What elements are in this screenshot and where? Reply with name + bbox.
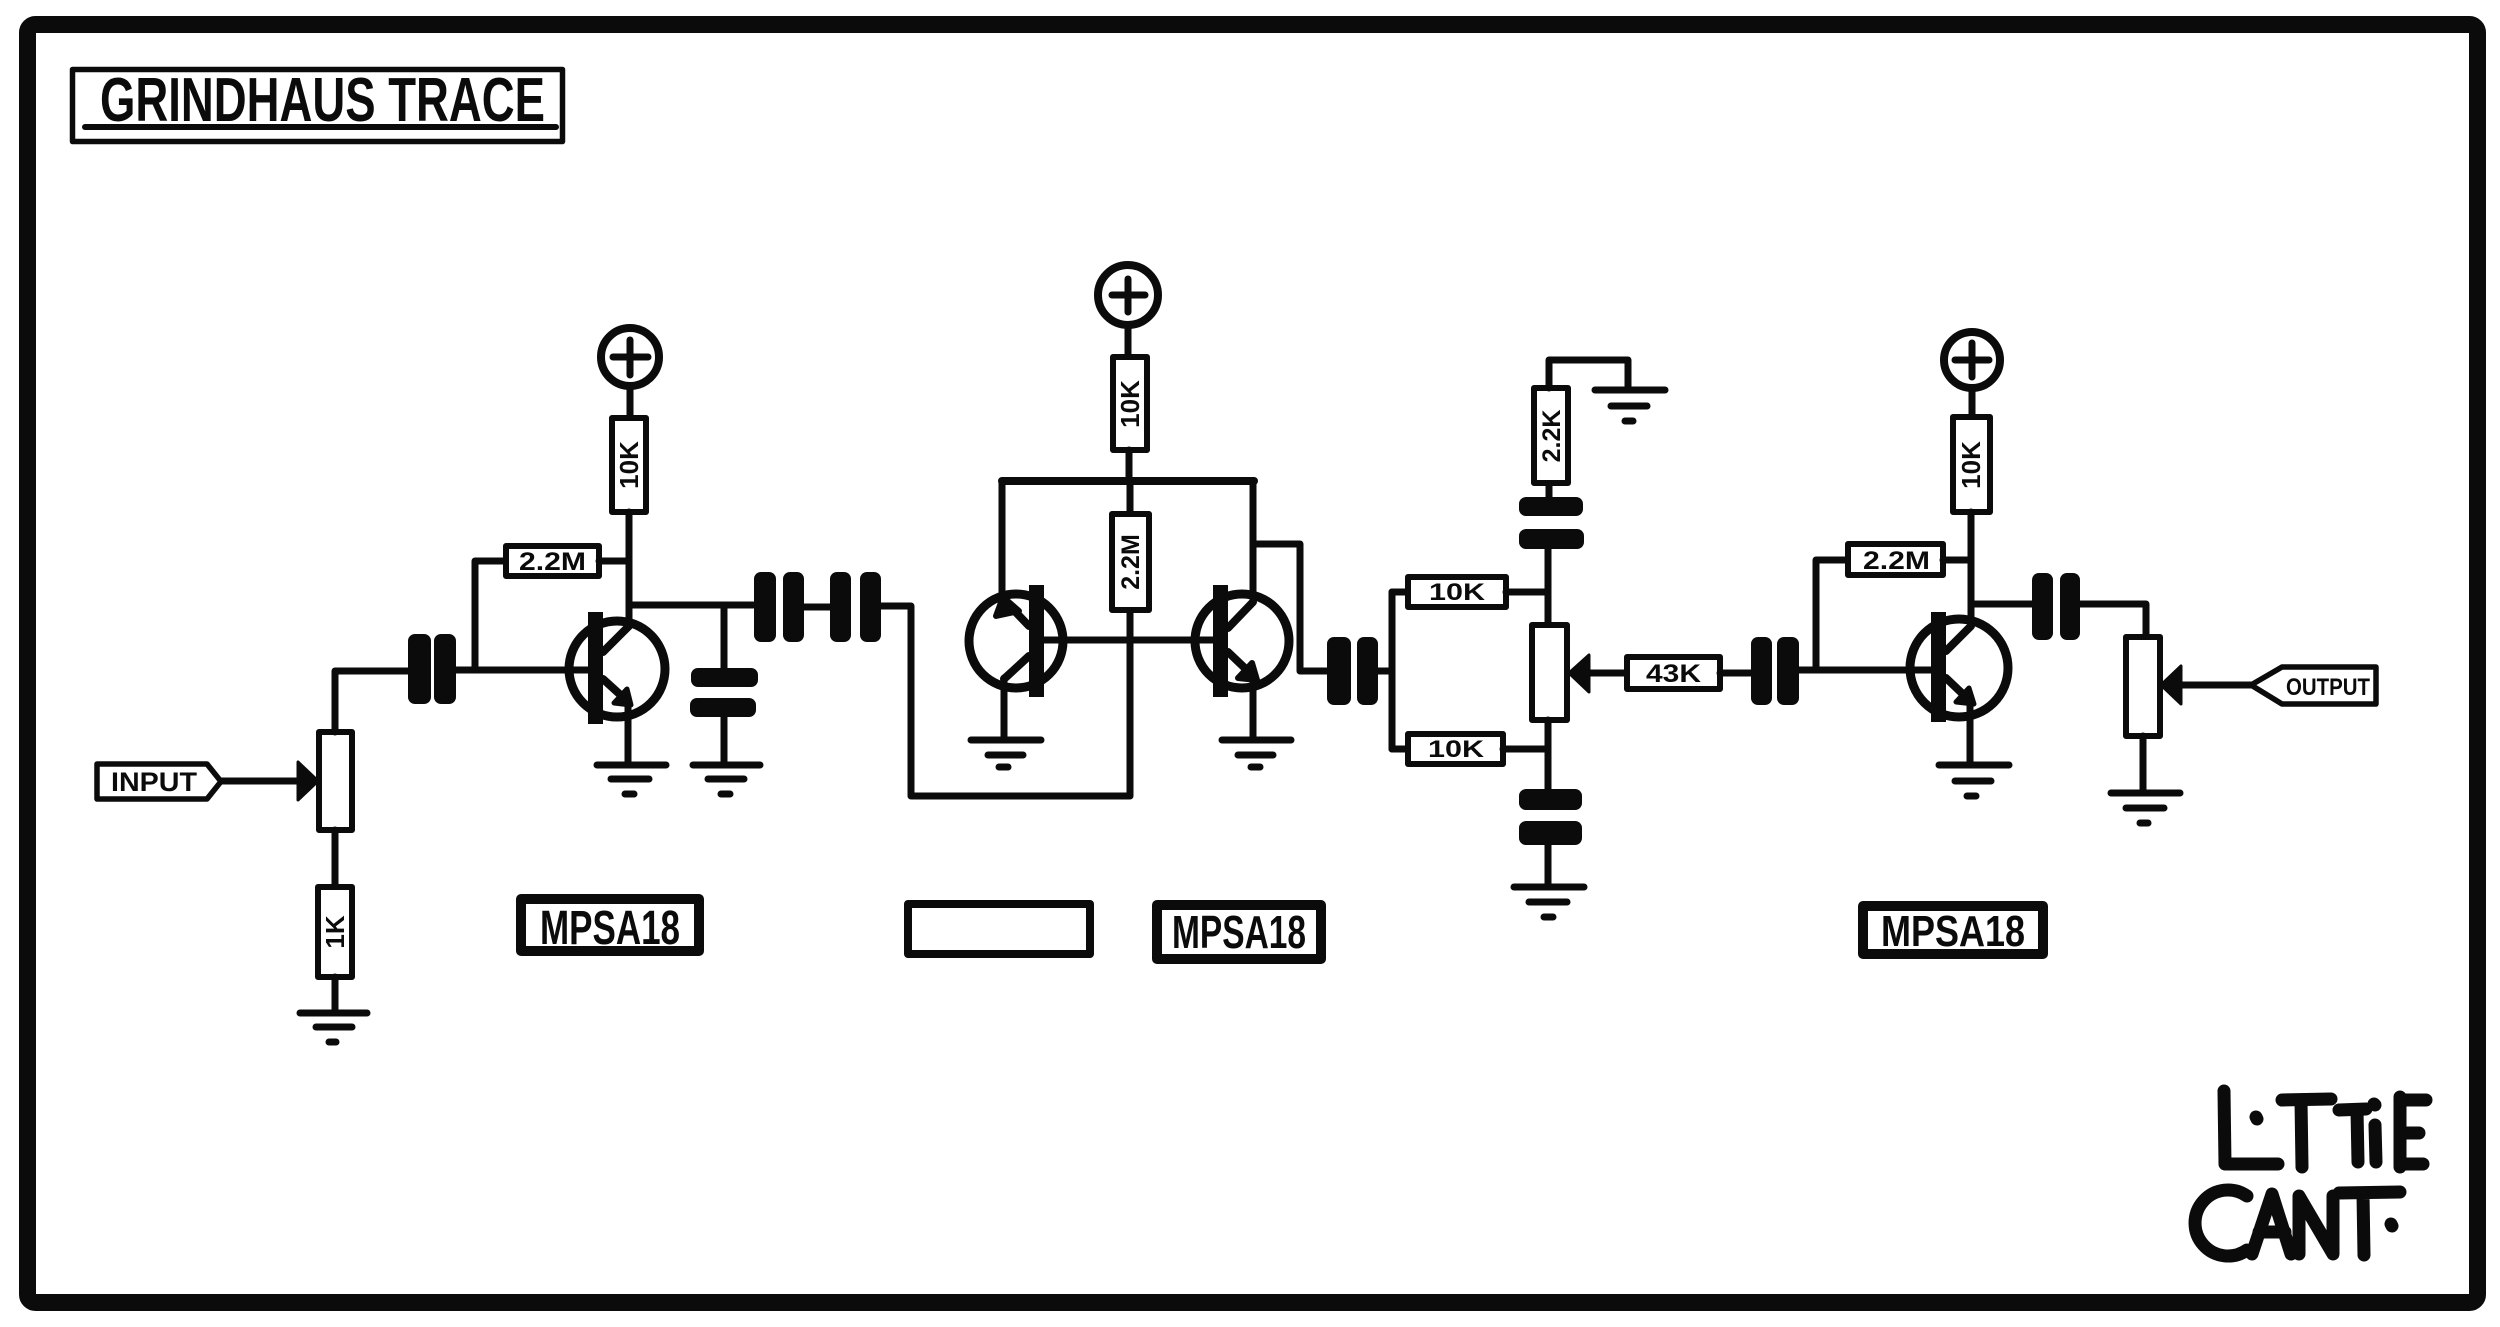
V+ supply symbol (stage 1) (601, 328, 659, 386)
svg-text:2.2M: 2.2M (1863, 547, 1930, 575)
resistor R7 10K (bottom) (1392, 746, 1408, 753)
MPSA18 label box (stage 1) (521, 899, 699, 951)
Q4 emitter wire (1967, 701, 1974, 762)
wire VR1 bottom to R1 (332, 830, 339, 887)
resistor R11 10K (1953, 417, 1990, 512)
resistor R10 2.2M (stage 3 feedback) (1816, 560, 1848, 670)
ground under Q2 (971, 740, 1041, 767)
resistor R6 10K (top) (1392, 589, 1408, 596)
base wire Q2-Q3 (1044, 637, 1214, 644)
ground under C2 (693, 765, 760, 794)
svg-text:10K: 10K (1115, 380, 1145, 428)
svg-text:2.2M: 2.2M (1117, 534, 1145, 590)
wire C4 to divider node (1378, 668, 1392, 675)
resistor R3 10K (612, 418, 646, 512)
VR2 wiper arrow (1569, 655, 1589, 692)
INPUT tag (97, 764, 221, 799)
svg-text:MPSA18: MPSA18 (540, 902, 680, 955)
Q3 emitter wire (1250, 675, 1257, 737)
svg-text:2.2K: 2.2K (1538, 410, 1566, 463)
wire C1 to Q1 base (456, 667, 589, 674)
resistor R8 2.2K (1534, 388, 1568, 483)
wire INPUT to pot VR1 (221, 778, 302, 785)
transistor Q3 (1195, 594, 1289, 688)
wire between C3 plates (804, 604, 830, 611)
wire node down to C2 (721, 605, 728, 668)
wire stage2 output tap (1253, 544, 1327, 671)
Q1 emitter wire (625, 702, 632, 762)
resistor R9 43K (1627, 657, 1720, 689)
wire V+ to R3 (627, 386, 634, 418)
svg-text:2.2M: 2.2M (519, 548, 586, 576)
ground at R8 (1595, 390, 1665, 421)
resistor R5 2.2M (stage 2) (1127, 481, 1134, 514)
svg-text:43K: 43K (1646, 660, 1701, 688)
wire C7 to ground (1545, 845, 1552, 884)
wire wiper to OUTPUT (2181, 682, 2251, 689)
ground under Q3 (1222, 740, 1291, 767)
capacitor C2 (collector to ground) (690, 668, 758, 717)
OUTPUT tag (2251, 667, 2376, 704)
svg-text:MPSA18: MPSA18 (1881, 907, 2025, 956)
wire C3 to stage 2 (jog down and right) (881, 606, 1130, 796)
resistor R4 10K (1113, 357, 1147, 450)
wire C6 to Q4 base (1799, 667, 1931, 674)
capacitor C3 (series coupling pair) (754, 572, 881, 642)
potentiometer VR2 body (1532, 625, 1567, 720)
wire V+ to R11 (1969, 388, 1976, 417)
V+ supply symbol (stage 2) (1098, 265, 1158, 325)
wire R8 top to ground (1549, 360, 1628, 388)
resistor R1 1K (318, 887, 352, 977)
wire V+ to R4 (1125, 325, 1132, 357)
ground under VR3 (2111, 793, 2180, 823)
wire Q1 collector node to C3 (629, 602, 753, 609)
title box (73, 70, 563, 142)
capacitor C1 (input coupling) (408, 634, 456, 704)
svg-text:1K: 1K (320, 915, 350, 948)
svg-text:10K: 10K (614, 441, 644, 489)
capacitor C7 (below VR2) (1519, 789, 1582, 845)
MPSA18 label box (stage 2) (1157, 905, 1321, 959)
wire VR2 bottom to C7 (1545, 720, 1552, 789)
Q3 collector wire to rail (1250, 481, 1257, 602)
wire C5 node to pot VR2 (1545, 549, 1552, 625)
transistor Q4 MPSA18 (1910, 619, 2008, 717)
capacitor C4 (stage2 output coupling) (1327, 637, 1378, 705)
resistor R2 2.2M (feedback) (475, 561, 506, 670)
transistor Q2 (mirrored) (969, 594, 1063, 688)
wire R2 to collector node (599, 558, 628, 565)
wire VR3 bottom to ground (2140, 736, 2147, 790)
svg-text:10K: 10K (1429, 579, 1486, 606)
signature CANT line (2195, 1190, 2400, 1256)
wire rail to Q2 collector (999, 481, 1006, 598)
ground under Q1 (597, 765, 666, 794)
VR3 wiper arrow (2161, 666, 2181, 704)
svg-text:10K: 10K (1956, 441, 1986, 489)
potentiometer VR3 body (2126, 637, 2160, 736)
signature LITTIE line (2224, 1091, 2426, 1167)
wire Q4 collector node to C8 (1971, 601, 2032, 608)
empty label box (908, 904, 1090, 954)
ground under Q4 (1939, 765, 2009, 796)
transistor Q1 MPSA18 (569, 621, 665, 717)
Q2 emitter wire (1001, 678, 1008, 737)
arrowhead into VR1 (298, 762, 318, 800)
wire C2 to ground (721, 717, 728, 761)
V+ supply symbol (stage 3) (1944, 332, 2000, 388)
wire R4 to collector rail (1126, 450, 1133, 481)
svg-text:MPSA18: MPSA18 (1172, 906, 1306, 958)
svg-text:OUTPUT: OUTPUT (2286, 674, 2370, 701)
ground under C7 (1514, 887, 1584, 917)
ground under R1 (300, 1013, 367, 1042)
wire C8 to pot VR3 (2080, 604, 2146, 637)
svg-text:10K: 10K (1428, 736, 1485, 763)
svg-text:INPUT: INPUT (111, 767, 198, 797)
wire R3 to Q1 collector (626, 512, 633, 626)
title underline (85, 124, 556, 130)
MPSA18 label box (stage 3) (1863, 906, 2043, 954)
capacitor C6 (to stage 3) (1751, 637, 1799, 705)
potentiometer VR1 body (319, 732, 352, 830)
collector rail (stage 2) (1002, 477, 1254, 485)
wire R11 to Q4 collector (1968, 512, 1975, 626)
wire C5 to 2.2K (1546, 483, 1553, 497)
capacitor C5 (above node) (1519, 497, 1584, 549)
wire R1 to ground (332, 977, 339, 1010)
wire VR1 top to C1 (335, 671, 408, 732)
node vertical (divider input) (1389, 592, 1396, 749)
wire wiper to R9 (1589, 670, 1627, 677)
wire R9 to C6 (1720, 670, 1751, 677)
capacitor C8 (output coupling) (2032, 573, 2080, 640)
